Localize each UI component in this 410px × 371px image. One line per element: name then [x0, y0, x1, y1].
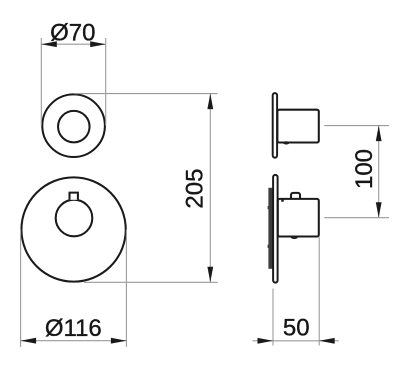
side view bottom: handle cylinder: [278, 199, 319, 237]
front view: handle index tab: [70, 193, 78, 200]
svg-text:Ø70: Ø70: [50, 20, 95, 47]
side view bottom: small square marker: [281, 199, 284, 201]
side view bottom: valve body notch lower: [268, 245, 269, 248]
dim 50: right extension line: [318, 237, 320, 346]
dim 205: top extension line: [74, 93, 218, 95]
svg-text:205: 205: [182, 169, 209, 209]
front view: large handle inner circle: [56, 200, 93, 237]
dim Ø70: right arrowhead: [90, 41, 106, 47]
front view: large trim ring outer circle: [21, 177, 125, 281]
dim Ø116: right extension line: [125, 230, 127, 347]
dim 50: left extension line: [272, 289, 274, 346]
dim 205: top arrowhead: [207, 94, 213, 110]
dim 50: left arrowhead (outside, pointing right): [258, 338, 274, 344]
side view bottom: handle index tab: [291, 193, 300, 200]
dim 100: dimension line: [378, 126, 380, 218]
svg-text:Ø116: Ø116: [45, 315, 102, 342]
dim 100: top extension line: [324, 125, 389, 127]
dim Ø116: left extension line: [20, 230, 22, 347]
dim Ø116: right arrowhead: [111, 338, 127, 344]
svg-text:100: 100: [351, 149, 378, 189]
side view bottom: valve body notch upper: [268, 206, 269, 209]
dim 100: bottom arrowhead: [376, 202, 382, 218]
dim 50: dimension line with outside tails: [253, 340, 339, 342]
svg-text:50: 50: [283, 315, 310, 342]
dim Ø116: left arrowhead: [21, 338, 36, 344]
front view: small handle inner circle: [58, 111, 90, 143]
side view bottom: set-screw oval on cylinder bottom: [291, 236, 298, 239]
dim Ø70: dimension line: [41, 43, 105, 45]
dim 205: dimension line: [209, 94, 211, 283]
front view: small trim ring outer circle: [42, 94, 105, 157]
dim Ø70: left arrowhead: [41, 41, 57, 47]
dim 205: bottom extension line: [84, 281, 218, 283]
dim 100: top arrowhead: [376, 126, 382, 142]
dim 50: right arrowhead (outside, pointing left): [319, 338, 335, 344]
dim Ø70: left extension line: [40, 38, 42, 126]
dim Ø116: dimension line: [21, 340, 127, 342]
side view top: wall plate: [273, 93, 277, 158]
dim 205: bottom arrowhead: [207, 267, 213, 283]
side view bottom: wall plate: [273, 175, 278, 283]
side view top: handle cylinder: [277, 110, 318, 143]
side view bottom: in-wall valve body dark bar: [268, 188, 272, 269]
dim 100: bottom extension line: [324, 217, 389, 219]
side view top: set-screw oval on cylinder bottom: [283, 141, 289, 144]
dim Ø70: right extension line: [105, 38, 107, 126]
